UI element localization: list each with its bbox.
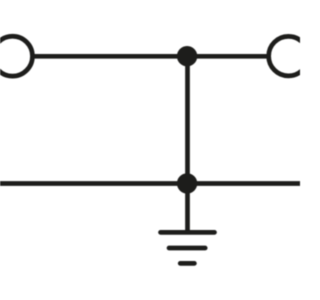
ground: bar 1 (widest) [161, 230, 215, 235]
wire: vertical from top junction down to ground [185, 56, 190, 232]
ground: bar 3 (shortest) [180, 261, 194, 266]
junction dot (top node) [177, 46, 197, 66]
left terminal circle (clipped at left edge) [0, 36, 32, 76]
wire: top horizontal from left terminal to right terminal [31, 54, 269, 59]
wire: lower horizontal bus (full width) [0, 181, 300, 186]
ground: bar 2 (middle) [169, 246, 205, 251]
junction dot (lower node) [177, 173, 197, 193]
right terminal circle (clipped at right edge) [269, 36, 309, 76]
